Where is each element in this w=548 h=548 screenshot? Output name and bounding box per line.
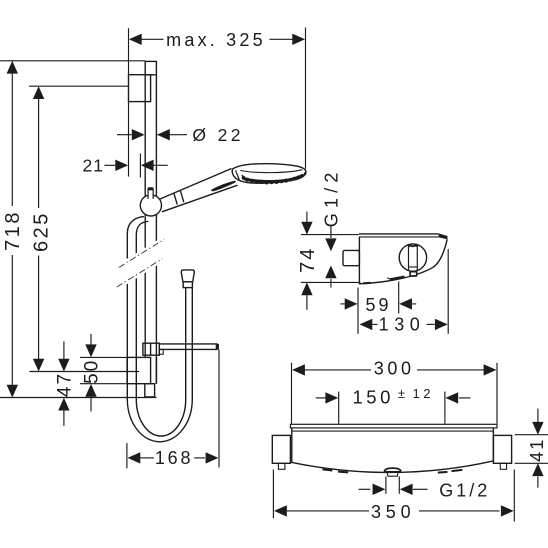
shower head rim line — [240, 170, 302, 173]
svg-text:74: 74 — [297, 247, 319, 273]
svg-text:168: 168 — [155, 448, 193, 468]
svg-text:130: 130 — [379, 315, 426, 335]
front view outlet nub — [384, 468, 401, 471]
svg-text:41: 41 — [527, 438, 547, 462]
dim 718 — [11, 73, 13, 207]
front view top plate — [290, 424, 497, 428]
handle select lever dark crescent — [211, 181, 236, 192]
dim max. 325 — [128, 28, 130, 74]
knob bottom cup — [410, 272, 417, 276]
front view face slots — [323, 469, 333, 470]
bottom holder block — [127, 357, 151, 383]
shelf bar end cap — [216, 344, 218, 350]
shower head spray face speckles — [245, 176, 302, 182]
dim 50 — [90, 334, 92, 345]
dim 168 — [126, 443, 128, 468]
front view right wall union — [493, 435, 511, 463]
dim 625 — [38, 98, 40, 208]
top slider bracket — [129, 75, 151, 102]
dim 130 — [447, 249, 449, 334]
ref line slider bracket center (625 top) — [29, 85, 129, 87]
ref line rail top (718 top) — [0, 60, 145, 62]
head left edge notch — [236, 170, 240, 180]
break line 2 — [117, 259, 163, 287]
svg-text:47: 47 — [55, 372, 76, 397]
dim G1/2 front — [385, 476, 387, 493]
svg-text:718: 718 — [2, 210, 24, 251]
hand shower ball joint — [140, 195, 161, 216]
side view knob — [399, 244, 426, 271]
dim 41 — [515, 434, 548, 436]
front view bar face — [292, 428, 494, 473]
ref line holder bottom (50) — [80, 383, 127, 385]
svg-text:21: 21 — [83, 155, 104, 175]
side view body outline — [359, 237, 447, 284]
front view face top line — [292, 430, 494, 432]
dim 47 — [63, 342, 65, 360]
svg-text:350: 350 — [371, 502, 415, 522]
shower head — [232, 164, 306, 184]
hose end conical nut — [181, 270, 194, 282]
svg-text:50: 50 — [81, 359, 102, 384]
svg-text:max. 325: max. 325 — [166, 30, 266, 50]
shower hose left tube + U loop — [127, 217, 192, 442]
ref line rail bottom (718/47) — [0, 397, 156, 399]
dim 21 — [139, 154, 141, 178]
dim 59 — [357, 288, 359, 334]
side view bottom left notch — [363, 282, 371, 285]
side view body top lip — [359, 233, 439, 235]
side view top lip right wedge — [439, 233, 448, 239]
rail break mask — [120, 237, 163, 289]
dim 300 — [291, 363, 293, 424]
svg-text:59: 59 — [365, 295, 391, 315]
shelf bar — [159, 343, 217, 345]
rail pole — [144, 75, 146, 358]
ref line holder center (625/47) — [30, 371, 140, 373]
rail bottom end piece — [145, 384, 155, 397]
dim 150 ± 12 — [338, 392, 340, 424]
hand shower handle — [160, 169, 232, 200]
dim 74 — [301, 234, 359, 236]
shelf bracket block on rail — [143, 343, 159, 355]
svg-text:625: 625 — [30, 211, 52, 252]
holder pin — [148, 190, 153, 199]
break line 1 — [119, 239, 165, 267]
svg-text:300: 300 — [374, 358, 415, 378]
hose nut cylinder — [183, 282, 192, 288]
shelf bar lower notch — [159, 349, 163, 354]
front view left wall union — [272, 435, 290, 463]
svg-text:G1/2: G1/2 — [321, 167, 341, 227]
side view bottom outlet tab — [389, 276, 405, 282]
dim Ø 22 — [117, 134, 132, 136]
rail top cap — [145, 61, 156, 74]
svg-text:Ø 22: Ø 22 — [192, 125, 244, 145]
handle grip joint ticks — [174, 193, 178, 204]
ref line holder top (50) — [80, 356, 127, 358]
svg-text:G1/2: G1/2 — [439, 481, 490, 501]
dim 350 — [272, 470, 274, 519]
side view inlet connector box — [343, 250, 359, 265]
